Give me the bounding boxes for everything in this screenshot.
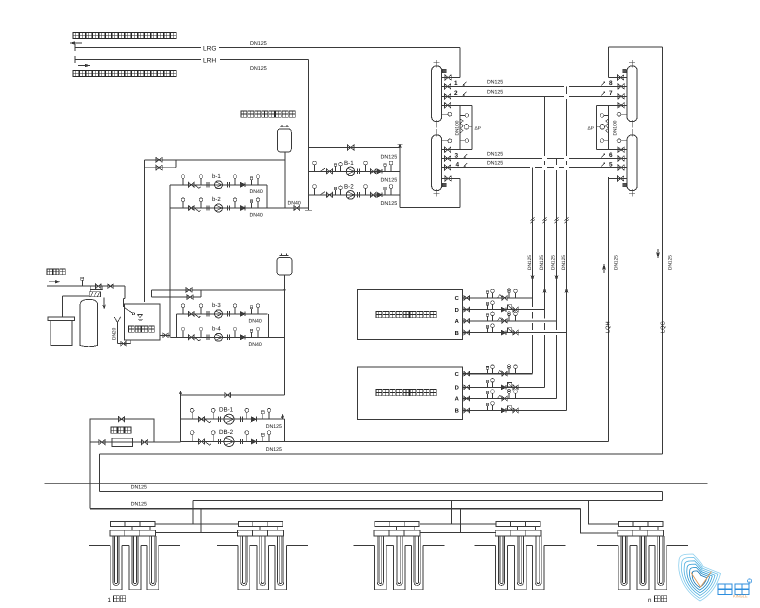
svg-text:DN125: DN125: [266, 447, 282, 453]
svg-text:D: D: [455, 308, 459, 314]
wire bypass bottom stub: [442, 149, 473, 151]
heat pump unit 1 box: [358, 290, 463, 340]
group well cluster at 374.8: [353, 521, 444, 589]
flange mark lower: [443, 183, 447, 187]
valve tank outlet: [163, 333, 168, 338]
svg-text:DN125: DN125: [381, 178, 398, 184]
wire tank outlet: [160, 334, 170, 336]
bypass relief bottom: [604, 140, 609, 142]
valve on y395: [225, 393, 231, 398]
label diaphragm expansion tank: [241, 111, 247, 117]
port A flex: [464, 319, 470, 323]
svg-text:DN125: DN125: [131, 502, 147, 508]
svg-text:DN40: DN40: [250, 212, 263, 218]
heat pump port C line: [463, 297, 533, 299]
expansion tank 1: [278, 129, 292, 152]
wire header1 supply: [99, 454, 101, 492]
svg-text:DN125: DN125: [381, 154, 398, 160]
wire DB suction manifold: [180, 395, 182, 442]
softener control valve: [89, 292, 100, 297]
svg-text:DN20: DN20: [112, 327, 118, 340]
wire DB discharge vertical: [284, 419, 286, 441]
well casing 2: [129, 546, 141, 590]
wire b12 discharge: [266, 185, 268, 208]
well casing 3: [411, 546, 423, 590]
svg-text:B: B: [455, 331, 459, 337]
well U-tube 1: [621, 536, 627, 585]
port C fittings: [487, 293, 489, 298]
well U-tube 1: [113, 536, 119, 585]
valve tap 1: [96, 284, 102, 289]
wire dropper G12 top: [192, 501, 194, 525]
pump line b-1: [170, 184, 267, 186]
well manifold bottom bar: [618, 530, 664, 536]
heat pump port C line: [463, 373, 533, 375]
wire salt line: [63, 295, 90, 297]
svg-text:LRG: LRG: [203, 46, 217, 53]
wire right frame drop to port: [608, 47, 610, 78]
well U-tube 3: [658, 536, 664, 585]
drain stub circle: [621, 113, 627, 115]
wire bottom run to collector: [400, 207, 460, 209]
wire bottom port stub: [442, 178, 460, 180]
svg-text:DN125: DN125: [614, 255, 620, 270]
riser R4 from pipe1: [566, 86, 568, 94]
wire top port stub: [442, 77, 460, 79]
heat pump port D line: [463, 309, 545, 311]
pipe 3-6: [453, 158, 542, 160]
svg-text:5: 5: [609, 161, 613, 168]
drain stub circle lower: [442, 140, 448, 142]
air vent mark 1: [180, 391, 182, 395]
pump DB-1: [224, 414, 234, 424]
soil line segments: [217, 545, 238, 547]
pipe 1-8: [453, 85, 564, 87]
pump b-1: [215, 181, 223, 189]
wire tank feed elbow: [124, 286, 126, 298]
well casing 1: [238, 546, 250, 590]
flange mark: [443, 69, 447, 73]
wire link G3-G4 top: [420, 523, 496, 525]
well manifold top bar: [375, 521, 419, 526]
well U-tube 2: [132, 536, 138, 585]
logo Kingle heart: [679, 554, 721, 601]
port stub 3: [616, 158, 627, 160]
port stub 4: [616, 167, 627, 169]
well casing 2: [637, 546, 649, 590]
wire bypass top stub: [597, 104, 628, 106]
descaler box: [112, 438, 133, 446]
wire bypass vertical inner: [459, 105, 461, 149]
well U-tube 3: [414, 536, 420, 585]
wire b34 discharge to stem: [269, 336, 285, 338]
heat pump unit 2 box: [358, 367, 463, 420]
heat pump port B line: [463, 332, 567, 334]
well manifold bottom bar: [110, 530, 156, 536]
well casing 3: [275, 546, 287, 590]
svg-text:DN125: DN125: [487, 152, 503, 158]
well U-tube 3: [278, 536, 284, 585]
svg-text:DN40: DN40: [249, 342, 262, 348]
soil line segments: [353, 545, 374, 547]
bypass relief top: [604, 114, 609, 116]
header cylinder upper: [432, 66, 442, 122]
LQG flow arrow: [657, 249, 659, 258]
header cylinder upper: [627, 66, 637, 122]
wire fill cross line y290: [151, 289, 284, 291]
valve jog lower: [156, 165, 162, 170]
svg-text:DN125: DN125: [668, 255, 674, 270]
riser flow arrows: [532, 272, 534, 281]
wire dropper G34 top: [450, 501, 452, 525]
svg-text:B-1: B-1: [344, 160, 354, 167]
wire header1 return run: [662, 492, 664, 501]
overflow funnel: [114, 317, 117, 323]
valve tap 2: [108, 284, 114, 289]
svg-text:4: 4: [456, 161, 460, 168]
well manifold bottom bar: [495, 530, 541, 536]
port D flex: [464, 385, 470, 389]
wire tank1 stem: [284, 152, 286, 208]
well manifold bottom bar: [238, 530, 284, 536]
svg-text:DN125: DN125: [131, 485, 147, 491]
svg-text:DB-2: DB-2: [219, 429, 234, 436]
wire softener drain: [103, 298, 105, 309]
port stub 3: [442, 158, 453, 160]
group right collector assembly: [597, 60, 638, 196]
svg-text:b-2: b-2: [212, 196, 221, 203]
svg-text:2: 2: [454, 90, 458, 97]
label heat pump unit 1: [376, 312, 382, 318]
wire link G3-G4 bottom: [420, 532, 496, 534]
tap water arrow: [49, 281, 60, 283]
port stub 4: [442, 167, 453, 169]
svg-text:B-2: B-2: [344, 183, 354, 190]
pump line b-2: [170, 207, 267, 209]
well U-tube 2: [640, 536, 646, 585]
well U-tube 1: [377, 536, 383, 585]
pump line B-1: [309, 170, 401, 172]
wire header2: [89, 442, 91, 509]
label soft water tank: [129, 326, 135, 332]
valve bypass: [119, 417, 125, 422]
heat pump port A line: [463, 398, 557, 400]
group well cluster at 238.3: [217, 521, 308, 589]
pump line B-2: [309, 194, 401, 196]
wire b12 suction manifold: [169, 185, 171, 208]
label tap water: [47, 269, 53, 275]
wire dropper G12 bottom: [200, 509, 202, 533]
svg-text:DN125: DN125: [487, 161, 503, 167]
flange mark: [623, 69, 627, 73]
svg-text:DN125: DN125: [561, 255, 567, 270]
svg-text:DN100: DN100: [613, 120, 619, 135]
gauge on tap line: [81, 280, 83, 286]
port C flex: [464, 372, 470, 376]
svg-text:7: 7: [609, 90, 613, 97]
wire LRH riser: [308, 60, 310, 211]
valve fill lower: [187, 295, 193, 300]
drain stub circle: [442, 113, 448, 115]
svg-text:1: 1: [108, 597, 112, 604]
LQH flow arrow: [603, 264, 605, 273]
softener tank: [80, 299, 98, 346]
soil line segments: [89, 545, 110, 547]
wire LQG return line: [100, 453, 663, 455]
wire makeup jog: [145, 159, 177, 161]
valve b2 discharge: [294, 206, 300, 211]
group well cluster at 495.9: [474, 521, 565, 589]
well U-tube 3: [535, 536, 541, 585]
well U-tube 1: [241, 536, 247, 585]
port B flex: [464, 408, 470, 412]
wire dropper G34 bottom: [460, 509, 462, 533]
wire funnel drain: [117, 343, 130, 345]
wire top port stub: [609, 77, 627, 79]
soil line segments: [597, 545, 618, 547]
port B flex: [464, 330, 470, 334]
wire link G1-G2 top: [155, 523, 238, 525]
pump B-2: [346, 191, 355, 200]
port D fittings: [487, 383, 489, 388]
well casing 2: [393, 546, 405, 590]
label heat pump unit 2: [376, 390, 382, 396]
bypass spring: [460, 119, 463, 133]
header cylinder lower: [432, 135, 442, 191]
svg-text:KINGLE: KINGLE: [733, 594, 748, 599]
wire fill riser to soft tank: [144, 168, 146, 302]
svg-text:DN125: DN125: [539, 255, 545, 270]
wire suction riser: [169, 208, 171, 337]
svg-text:B: B: [455, 409, 459, 415]
well casing 3: [655, 546, 667, 590]
wire collector feed vertical x400: [399, 144, 401, 208]
well U-tube 2: [517, 536, 523, 585]
heat pump port A line: [463, 320, 557, 322]
well U-tube 2: [260, 536, 266, 585]
svg-text:DN125: DN125: [487, 79, 503, 85]
wire bypass vertical outer: [596, 105, 598, 149]
salt tank body: [51, 321, 72, 346]
dP regulator: [600, 125, 605, 130]
svg-text:n: n: [648, 597, 652, 604]
pump b-4: [215, 333, 223, 341]
wire branch to collector top: [309, 147, 401, 149]
wire bypass vertical inner: [608, 105, 610, 149]
well casing 2: [515, 546, 527, 590]
float valve: [124, 308, 132, 314]
valve fill upper: [186, 288, 192, 293]
wire right frame top: [609, 46, 663, 48]
riser R3 from pipe3: [556, 159, 558, 166]
port stub 1: [442, 85, 453, 87]
pump DB-2: [224, 437, 234, 447]
svg-text:DN125: DN125: [487, 89, 503, 95]
air vent mark 2: [282, 415, 284, 420]
label return pipe text: [73, 71, 79, 77]
well casing 1: [110, 546, 122, 590]
svg-text:DN125: DN125: [266, 424, 282, 430]
svg-text:LQG: LQG: [661, 321, 667, 333]
group well cluster at 618.5: [597, 521, 688, 589]
pump line b-4: [170, 336, 268, 338]
svg-text:DN125: DN125: [250, 66, 267, 72]
svg-text:b-3: b-3: [212, 302, 221, 309]
port D flex: [464, 307, 470, 311]
svg-text:DN40: DN40: [250, 189, 263, 195]
port stub 2: [442, 95, 453, 97]
wire bypass bottom stub: [597, 149, 628, 151]
logo Kingle text: [718, 584, 749, 595]
well casing 1: [496, 546, 508, 590]
pump line b-3: [177, 313, 268, 315]
wire fill down to DB suction: [181, 394, 285, 396]
svg-text:b-1: b-1: [212, 173, 221, 180]
wire main to LQH: [285, 441, 609, 443]
heat pump port D line: [463, 386, 545, 388]
wire bypass top stub: [442, 104, 473, 106]
wire dropper G5 bottom: [580, 509, 618, 533]
wire b34 suction manifold: [176, 314, 178, 337]
wire b34 discharge: [268, 314, 270, 337]
expansion tank 2: [277, 258, 292, 276]
pump line DB-2: [181, 441, 285, 443]
well casing 3: [147, 546, 159, 590]
soil line segments: [474, 545, 495, 547]
pipe 2-7: [453, 95, 564, 97]
well casing 1: [618, 546, 630, 590]
well U-tube 1: [498, 536, 504, 585]
wire descaler bypass: [90, 419, 154, 442]
wire tap water line: [47, 285, 125, 287]
svg-text:DN125: DN125: [250, 41, 267, 47]
svg-text:D: D: [455, 386, 459, 392]
well casing 3: [532, 546, 544, 590]
valve funnel: [121, 341, 126, 345]
wire link G1-G2 bottom: [155, 532, 238, 534]
port A fittings: [487, 316, 489, 321]
slash marks left: [463, 82, 467, 86]
wire b2 discharge to LRH riser: [267, 207, 309, 209]
svg-text:1: 1: [454, 80, 458, 87]
label summer chilled / winter heating supply pipe text: [73, 33, 79, 39]
wire drop to softener valve: [89, 286, 91, 292]
wire LQG riser: [662, 47, 664, 454]
svg-text:DN40: DN40: [249, 319, 262, 325]
bypass spring: [606, 119, 609, 133]
soft water tank box: [124, 304, 160, 340]
valve descaler left: [99, 440, 105, 445]
wire up into lower cylinder port: [459, 179, 461, 208]
pump b-2: [215, 204, 223, 212]
wire bypass vertical outer: [471, 105, 473, 149]
label descaler: [111, 427, 117, 433]
port C fittings: [487, 369, 489, 374]
wire tank2 stem down: [284, 275, 286, 395]
valve on branch: [348, 145, 354, 150]
svg-text:DN100: DN100: [455, 120, 461, 135]
drain stub circle lower: [621, 140, 627, 142]
svg-text:LRH: LRH: [203, 58, 216, 65]
pump b-3: [215, 310, 223, 318]
port D fittings: [487, 305, 489, 310]
water level mark: [138, 315, 143, 318]
well manifold top bar: [496, 521, 540, 526]
bypass relief top: [460, 114, 465, 116]
wire descaler main line: [90, 441, 180, 443]
svg-text:b-4: b-4: [212, 325, 221, 332]
well manifold top bar: [111, 521, 155, 526]
port stub 1: [616, 85, 627, 87]
group well cluster at 110.5: [89, 521, 180, 589]
riser R2 from pipe2: [544, 96, 546, 156]
svg-text:ΔP: ΔP: [588, 125, 594, 131]
port C flex: [464, 296, 470, 300]
wire LRH return line: [75, 59, 201, 61]
svg-text:ΔP: ΔP: [475, 125, 481, 131]
well manifold top bar: [619, 521, 663, 526]
svg-text:LQH: LQH: [606, 321, 612, 333]
flange mark lower: [623, 183, 627, 187]
well U-tube 3: [150, 536, 156, 585]
port A fittings: [487, 394, 489, 399]
well casing 1: [375, 546, 387, 590]
svg-text:3: 3: [455, 152, 459, 159]
svg-text:DN125: DN125: [381, 201, 398, 207]
svg-text:DB-1: DB-1: [219, 407, 234, 414]
dP regulator: [464, 125, 469, 130]
wire fill jog y297: [151, 296, 201, 298]
bypass relief bottom: [460, 140, 465, 142]
wire LRG supply line: [75, 47, 201, 49]
salt tank lid: [48, 317, 75, 321]
z breaks on risers: [530, 217, 534, 221]
wire dropper G5 top: [589, 501, 619, 525]
well U-tube 2: [396, 536, 402, 585]
pipe 4-5: [453, 167, 530, 169]
svg-text:6: 6: [609, 152, 613, 159]
svg-text:DN125: DN125: [551, 255, 557, 270]
svg-text:DN125: DN125: [527, 255, 533, 270]
well manifold top bar: [238, 521, 282, 526]
riser R1 from pipe4: [532, 168, 534, 308]
pump line DB-1: [181, 418, 285, 420]
pump B-1: [346, 167, 355, 176]
well manifold bottom bar: [374, 530, 420, 536]
wire LQH riser: [608, 177, 610, 442]
svg-text:DN40: DN40: [288, 201, 301, 207]
valve jog upper: [156, 158, 162, 163]
header cylinder lower: [627, 135, 637, 191]
group left collector assembly: [432, 60, 473, 196]
slash marks right: [601, 82, 605, 86]
port B fittings: [487, 406, 489, 411]
wire bottom port stub: [609, 178, 627, 180]
well casing 2: [257, 546, 269, 590]
port A flex: [464, 396, 470, 400]
valve descaler right: [142, 440, 148, 445]
port B fittings: [487, 328, 489, 333]
heat pump port B line: [463, 409, 567, 411]
ground surface line: [45, 482, 708, 484]
port stub 2: [616, 95, 627, 97]
wire LRG drop: [459, 48, 461, 78]
wire makeup line y160: [176, 159, 285, 161]
svg-text:8: 8: [609, 80, 613, 87]
